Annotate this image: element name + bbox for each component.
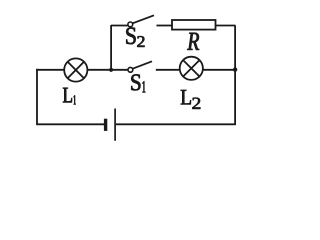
battery cell: short thick negative plate xyxy=(104,119,107,131)
label S1 xyxy=(131,74,145,92)
switch S1 (pivot and blade) xyxy=(128,61,152,72)
lamp L1 (circle with X) xyxy=(64,58,87,81)
switch S2 (pivot and blade) xyxy=(128,15,154,26)
label S2 xyxy=(126,28,144,47)
wire node A vertical branch riser xyxy=(110,25,112,70)
wire bottom right (battery to rail) xyxy=(116,123,236,125)
node A junction dot (left) xyxy=(109,68,113,72)
wire bottom left (rail to battery) xyxy=(36,123,104,125)
label L1 xyxy=(63,88,76,105)
wire main left (rail to L1) xyxy=(36,69,64,71)
wire right vertical rail xyxy=(234,26,236,125)
label R xyxy=(187,33,199,50)
node B junction dot (right) xyxy=(233,67,237,71)
wire left vertical rail xyxy=(36,69,38,125)
lamp L2 (circle with X) xyxy=(180,57,203,80)
resistor R (box) xyxy=(172,20,216,30)
wire L2 to right rail xyxy=(203,69,235,71)
wire S2 to resistor xyxy=(157,25,173,27)
label L2 xyxy=(181,90,201,109)
wire S1 to L2 xyxy=(156,69,180,71)
battery cell: long thin positive plate xyxy=(114,109,116,141)
wire node A to S2 pivot xyxy=(111,25,128,27)
wire L1 to S1 pivot xyxy=(87,69,128,71)
wire top right (resistor to right rail) xyxy=(216,25,236,27)
